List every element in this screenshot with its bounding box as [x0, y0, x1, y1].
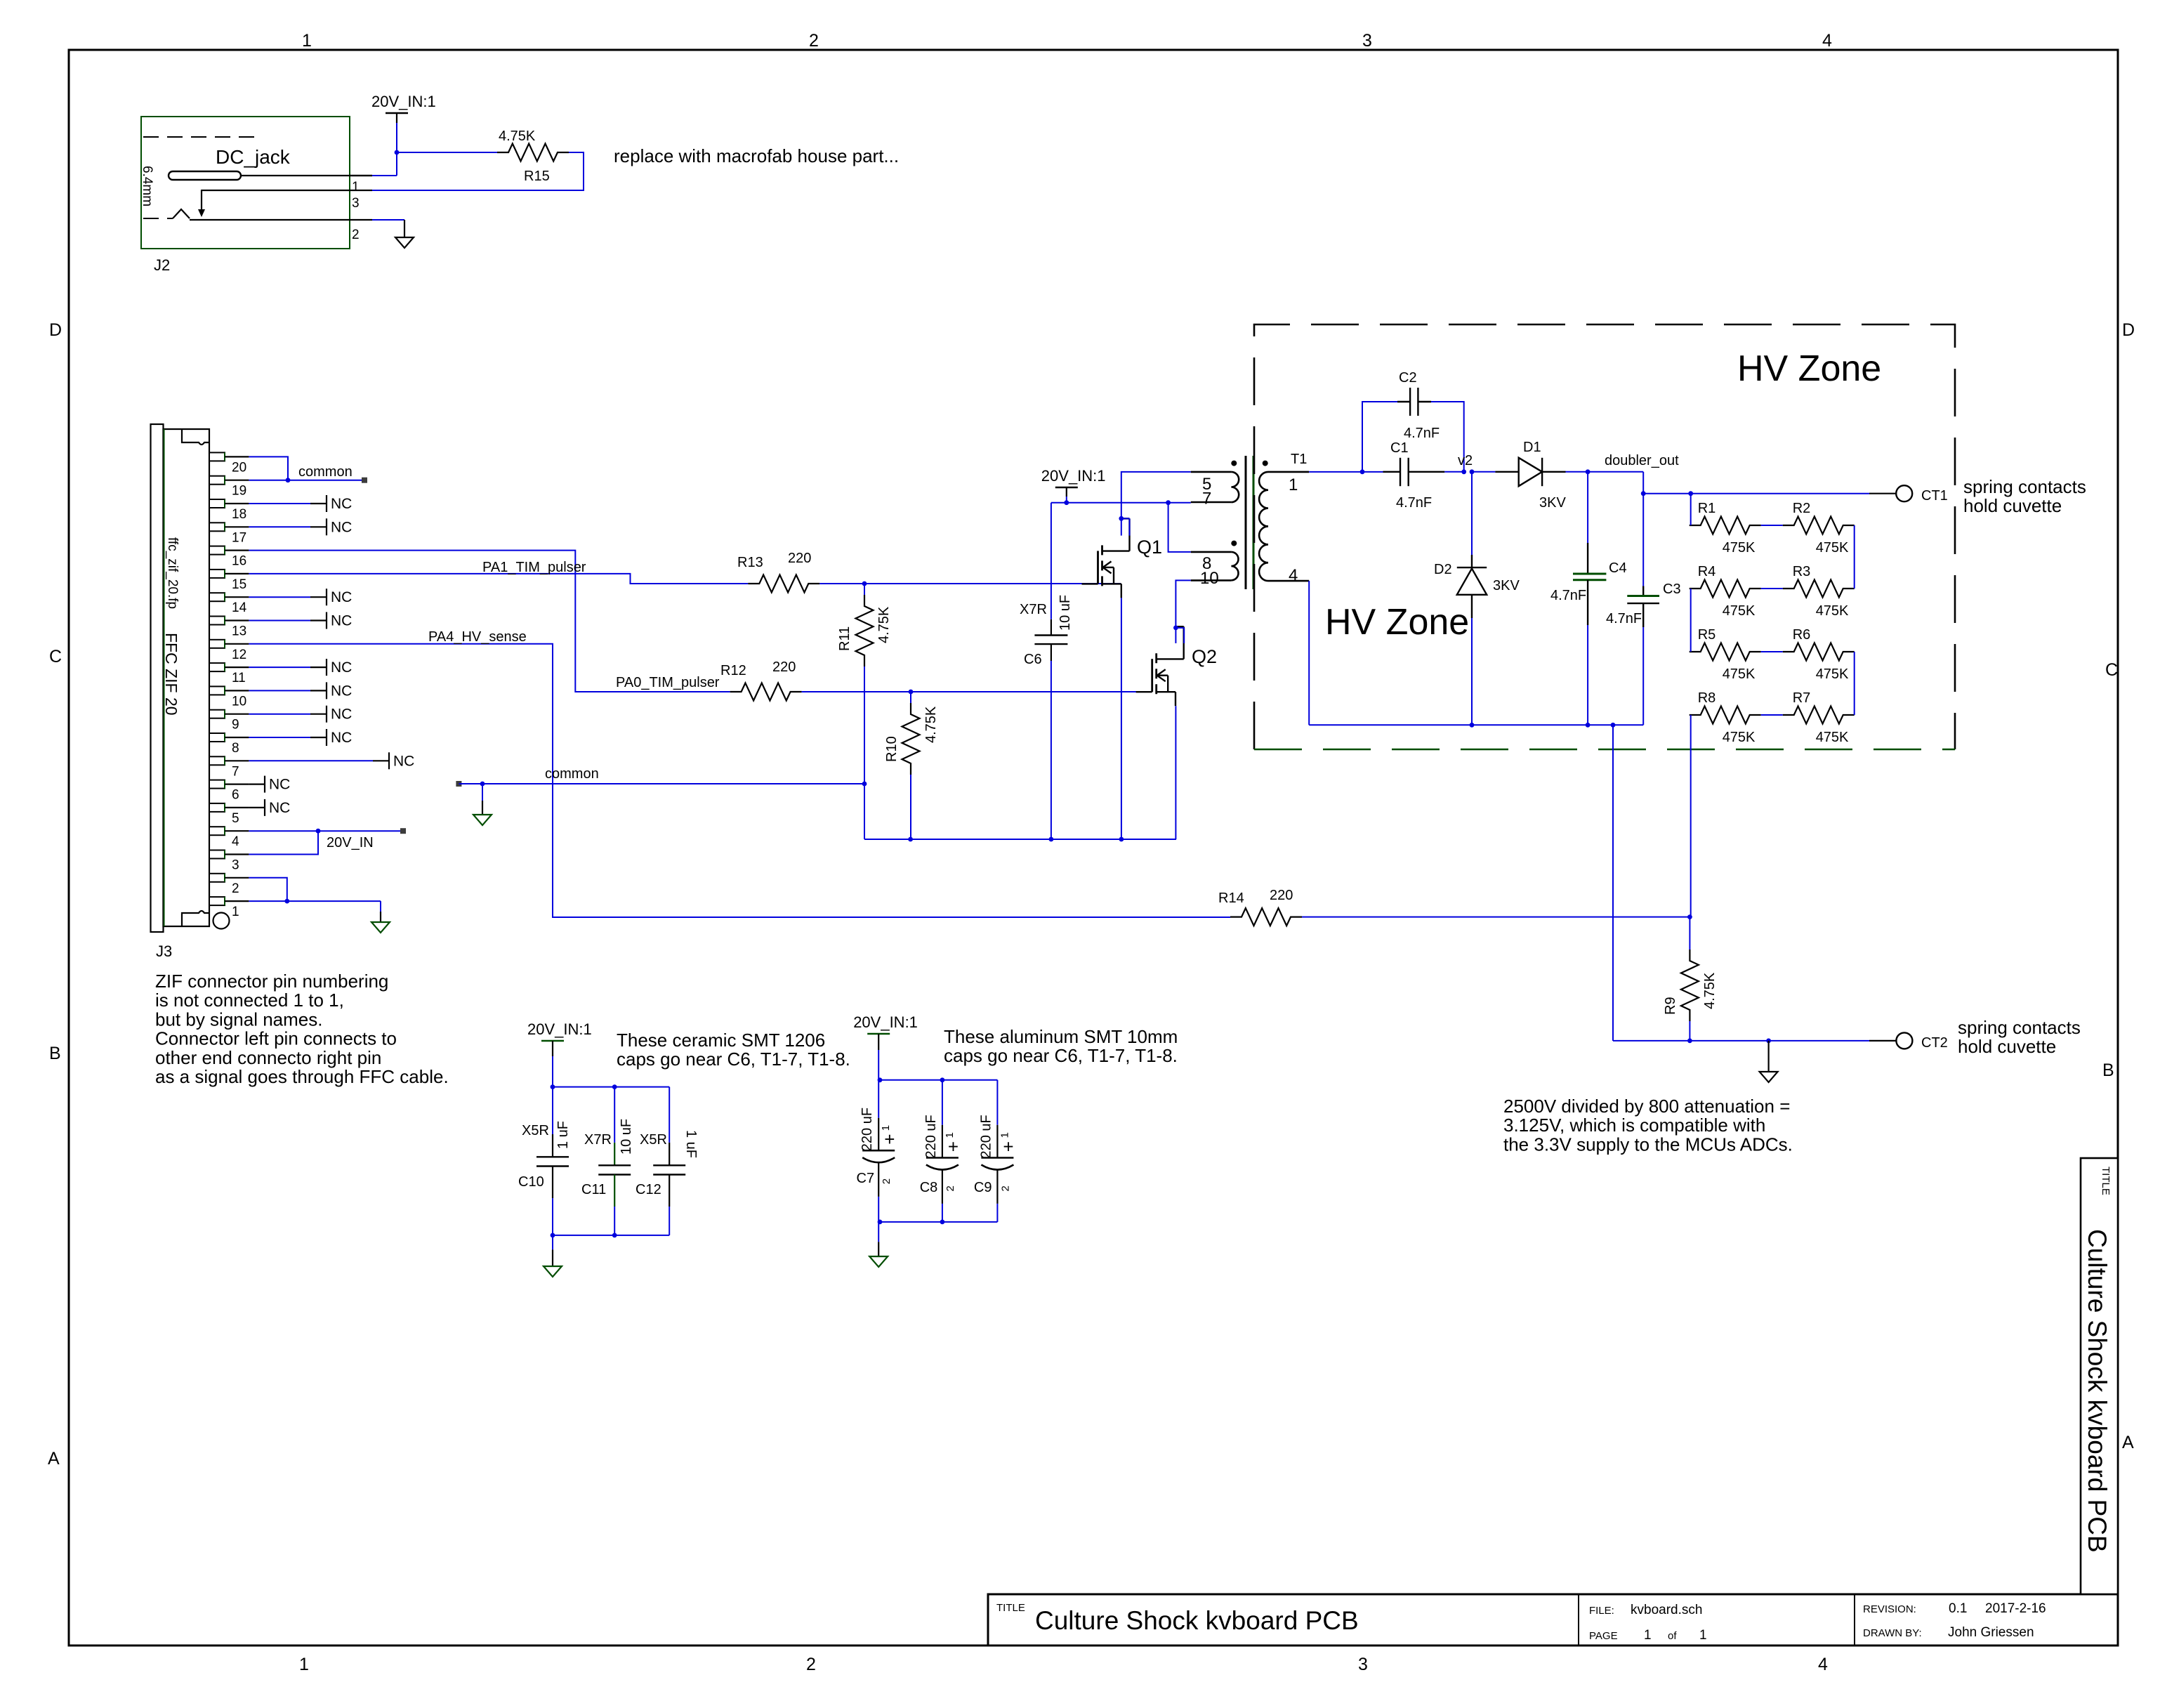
side title name — [2083, 1229, 2112, 1553]
svg-text:17: 17 — [232, 530, 246, 545]
svg-text:1: 1 — [232, 905, 239, 919]
power 20V_IN:1 at C6 — [1041, 467, 1106, 497]
svg-text:4.7nF: 4.7nF — [1550, 588, 1586, 603]
svg-text:C12: C12 — [636, 1182, 661, 1197]
svg-text:HV Zone: HV Zone — [1325, 602, 1469, 643]
svg-text:TITLE: TITLE — [2100, 1167, 2112, 1195]
wire T1 pin8 branch — [1168, 503, 1191, 552]
transistor Q1 — [1082, 518, 1163, 598]
wire Q2 source to rail — [1175, 706, 1176, 839]
note spring contacts CT2 — [1958, 1017, 2081, 1057]
svg-text:+: + — [948, 1136, 959, 1157]
svg-text:2: 2 — [232, 881, 239, 896]
net label PA4_HV_sense — [428, 629, 527, 645]
title block REVISION — [1863, 1601, 2046, 1616]
wire R13 to Q1 gate — [819, 582, 1121, 586]
svg-text:NC: NC — [269, 800, 290, 816]
svg-text:20V_IN: 20V_IN — [327, 835, 374, 850]
svg-text:475K: 475K — [1723, 730, 1756, 745]
svg-text:doubler_out: doubler_out — [1605, 453, 1679, 468]
svg-text:4.75K: 4.75K — [499, 129, 536, 144]
svg-text:X7R: X7R — [584, 1132, 612, 1148]
net label doubler_out — [1605, 453, 1679, 468]
diode D1 — [1472, 440, 1566, 511]
ground at common — [473, 815, 492, 825]
svg-text:R1: R1 — [1698, 501, 1716, 516]
svg-text:R3: R3 — [1793, 564, 1811, 579]
svg-text:the 3.3V supply to the MCUs AD: the 3.3V supply to the MCUs ADCs. — [1503, 1134, 1793, 1155]
J2 barrel pin — [169, 171, 372, 180]
power 20V_IN:1 at J2 — [371, 93, 436, 123]
svg-text:4: 4 — [232, 834, 239, 849]
wire J3 pin20 to common — [249, 456, 288, 480]
svg-text:but by signal names.: but by signal names. — [155, 1009, 322, 1030]
svg-text:475K: 475K — [1723, 540, 1756, 556]
svg-text:NC: NC — [331, 519, 352, 535]
svg-text:kvboard.sch: kvboard.sch — [1631, 1603, 1702, 1617]
resistor R9 — [1663, 917, 1718, 1021]
wire C3 to rail — [1642, 627, 1644, 725]
svg-text:9: 9 — [232, 718, 239, 733]
capacitor C12 — [636, 1087, 699, 1235]
svg-text:C7: C7 — [857, 1171, 875, 1186]
svg-text:20V_IN:1: 20V_IN:1 — [1041, 467, 1106, 485]
title block name — [1035, 1606, 1359, 1635]
NC at J3 pin 7 — [249, 752, 414, 769]
NC at J3 pin 18 — [249, 495, 352, 512]
svg-text:475K: 475K — [1816, 666, 1849, 682]
svg-text:PA0_TIM_pulser: PA0_TIM_pulser — [616, 675, 720, 690]
svg-text:CT2: CT2 — [1921, 1035, 1948, 1051]
ground at CT2 — [1760, 1072, 1778, 1082]
svg-text:19: 19 — [232, 484, 246, 499]
wire C7 bank top rail — [878, 1050, 998, 1082]
HV Zone title left — [1325, 602, 1469, 643]
svg-text:v2: v2 — [1458, 453, 1473, 468]
svg-text:R4: R4 — [1698, 564, 1716, 579]
ground at J3 pin1 — [371, 922, 390, 933]
wire CT2 rail — [1613, 1039, 1896, 1044]
side title box — [2081, 1158, 2118, 1594]
svg-text:Q2: Q2 — [1192, 646, 1217, 667]
HV Zone dashed box — [1254, 324, 1955, 749]
wire common rail vertical — [864, 784, 865, 839]
svg-text:R14: R14 — [1218, 891, 1244, 906]
wire T1 pin10 to Q2 drain — [1173, 580, 1191, 643]
svg-text:+: + — [1003, 1136, 1013, 1157]
wire 20V down to C6 — [1051, 503, 1052, 619]
resistor R10 — [884, 703, 939, 775]
svg-text:Q1: Q1 — [1137, 537, 1162, 558]
J2 label DC_jack — [216, 146, 291, 168]
svg-text:4.7nF: 4.7nF — [1606, 611, 1642, 626]
title block PAGE — [1589, 1628, 1707, 1643]
svg-text:C: C — [49, 647, 62, 666]
svg-text:NC: NC — [331, 589, 352, 605]
J2 label 6.4mm — [140, 166, 154, 206]
wire C10 bank top rail — [551, 1056, 670, 1089]
svg-text:NC: NC — [331, 659, 352, 676]
wire C6 to rail — [1051, 661, 1052, 839]
wire bottom rail — [864, 837, 1176, 842]
NC at J3 pin 14 — [249, 589, 352, 605]
J3 label FFC ZIF 20 — [162, 633, 180, 716]
svg-text:475K: 475K — [1816, 540, 1849, 556]
svg-text:3: 3 — [352, 196, 360, 211]
svg-text:REVISION:: REVISION: — [1863, 1603, 1916, 1615]
wire D2 to rail — [1470, 618, 1475, 728]
svg-text:NC: NC — [331, 730, 352, 746]
svg-text:4: 4 — [1818, 1655, 1828, 1674]
resistor pair R5 R6 — [1690, 627, 1855, 682]
svg-text:C: C — [2105, 660, 2118, 680]
wire C7 bank to ground — [878, 1222, 879, 1256]
svg-text:PA4_HV_sense: PA4_HV_sense — [428, 629, 527, 645]
J3 refdes — [156, 942, 172, 960]
NC at J3 pin 9 — [249, 706, 352, 723]
svg-text:1: 1 — [352, 180, 360, 195]
HV Zone title right — [1737, 348, 1881, 389]
svg-text:X5R: X5R — [522, 1123, 549, 1138]
wire J3 pin16 to PA0_TIM_pulser — [249, 551, 730, 692]
svg-text:4.7nF: 4.7nF — [1404, 426, 1440, 441]
capacitor C2 loop — [1362, 370, 1464, 472]
svg-text:20: 20 — [232, 460, 246, 475]
svg-text:220: 220 — [788, 551, 811, 566]
svg-text:1: 1 — [1289, 475, 1298, 494]
svg-text:R8: R8 — [1698, 690, 1716, 706]
svg-text:4: 4 — [1822, 31, 1832, 51]
wire C7 bank bottom rail — [878, 1220, 998, 1225]
wire CT1 to R1 — [1690, 494, 1692, 525]
svg-text:3.125V, which is compatible wi: 3.125V, which is compatible with — [1503, 1115, 1765, 1136]
svg-text:These ceramic SMT 1206: These ceramic SMT 1206 — [617, 1030, 825, 1051]
svg-text:J3: J3 — [156, 942, 172, 960]
transformer T1 — [1191, 452, 1309, 589]
svg-text:X5R: X5R — [640, 1132, 667, 1148]
svg-text:4.75K: 4.75K — [876, 606, 892, 643]
svg-text:common: common — [545, 766, 599, 782]
svg-text:1 uF: 1 uF — [555, 1121, 571, 1149]
svg-text:R2: R2 — [1793, 501, 1811, 516]
svg-text:of: of — [1668, 1630, 1677, 1642]
svg-text:4: 4 — [1289, 566, 1298, 585]
wire 20V to J2 pin1 — [372, 152, 397, 176]
svg-text:475K: 475K — [1723, 603, 1756, 619]
svg-text:PAGE: PAGE — [1589, 1630, 1618, 1642]
title block TITLE — [996, 1602, 1025, 1614]
svg-text:0.1: 0.1 — [1949, 1601, 1967, 1616]
svg-text:PA1_TIM_pulser: PA1_TIM_pulser — [482, 560, 586, 575]
net label PA1_TIM_pulser — [482, 560, 586, 575]
svg-text:1: 1 — [302, 31, 312, 51]
wire J3 pin3 to 20V_IN — [249, 831, 318, 854]
capacitor C7 — [857, 1080, 895, 1222]
svg-text:220 uF: 220 uF — [923, 1115, 939, 1158]
svg-text:NC: NC — [331, 683, 352, 699]
svg-text:C9: C9 — [974, 1180, 992, 1195]
wire 20V to R15 — [395, 123, 497, 155]
wire C10 bank to ground — [552, 1235, 553, 1266]
svg-text:caps go near C6, T1-7, T1-8.: caps go near C6, T1-7, T1-8. — [617, 1049, 850, 1070]
note ZIF connector pin numbering — [155, 971, 449, 1087]
capacitor C6 — [1020, 595, 1073, 667]
svg-text:John Griessen: John Griessen — [1948, 1625, 2034, 1640]
NC at J3 pin 8 — [249, 729, 352, 746]
net label common (mid) — [456, 766, 598, 787]
svg-text:16: 16 — [232, 554, 246, 569]
svg-text:C4: C4 — [1609, 560, 1627, 576]
capacitor C8 — [920, 1080, 959, 1222]
svg-text:R13: R13 — [737, 555, 763, 570]
svg-text:475K: 475K — [1816, 603, 1849, 619]
svg-text:HV Zone: HV Zone — [1737, 348, 1881, 389]
svg-text:18: 18 — [232, 507, 246, 522]
J2 pin 3 — [202, 190, 372, 211]
wire J3 pin1 to ground — [249, 899, 381, 922]
svg-text:13: 13 — [232, 624, 246, 639]
svg-text:R5: R5 — [1698, 627, 1716, 643]
svg-text:1: 1 — [944, 1132, 956, 1138]
svg-text:Culture Shock kvboard PCB: Culture Shock kvboard PCB — [1035, 1606, 1359, 1635]
svg-text:T1: T1 — [1291, 452, 1307, 467]
row labels right — [2102, 320, 2135, 1452]
svg-text:15: 15 — [232, 577, 246, 592]
wire J3 pin12 PA4_HV_sense — [249, 644, 1230, 917]
svg-text:C1: C1 — [1390, 440, 1409, 456]
resistor R12 — [720, 659, 802, 701]
wire CT2 ground stem — [1768, 1041, 1770, 1072]
svg-text:B: B — [49, 1044, 61, 1063]
svg-text:1: 1 — [299, 1655, 309, 1674]
wire R15 out loop to pin3 — [372, 152, 584, 190]
svg-text:C6: C6 — [1024, 652, 1042, 667]
capacitor C9 — [974, 1080, 1014, 1222]
wire T1 pin1 to C1 — [1309, 469, 1383, 474]
capacitor C10 — [518, 1087, 571, 1235]
svg-text:6.4mm: 6.4mm — [140, 166, 154, 206]
column labels bottom — [299, 1655, 1828, 1674]
wire J2 pin2 to ground — [372, 220, 404, 237]
capacitor C4 — [1550, 472, 1627, 625]
svg-text:R6: R6 — [1793, 627, 1811, 643]
svg-text:10: 10 — [232, 694, 246, 709]
svg-text:D1: D1 — [1523, 440, 1541, 455]
wire C10 bank bottom rail — [551, 1233, 670, 1238]
ground at J2 pin2 — [395, 237, 414, 248]
svg-text:is not connected 1 to 1,: is not connected 1 to 1, — [155, 990, 344, 1011]
svg-text:NC: NC — [331, 496, 352, 512]
wire T1 pin5 to Q1 drain — [1119, 472, 1190, 536]
wire J3 pin2 — [249, 878, 287, 901]
svg-text:1: 1 — [880, 1125, 892, 1131]
J2 switch lever — [173, 190, 372, 220]
J3 label ffc_zif_20.fp — [165, 537, 180, 609]
svg-text:NC: NC — [331, 613, 352, 629]
connector J3 FFC ZIF 20 body — [151, 424, 230, 932]
terminal CT2 — [1896, 1032, 1947, 1051]
svg-text:ffc_zif_20.fp: ffc_zif_20.fp — [165, 537, 180, 609]
side title TITLE — [2100, 1167, 2112, 1195]
svg-text:475K: 475K — [1723, 666, 1756, 682]
svg-text:R15: R15 — [524, 169, 550, 184]
svg-text:R10: R10 — [884, 736, 900, 762]
resistor R14 — [1218, 888, 1302, 926]
transistor Q2 — [1136, 626, 1217, 706]
net label 20V_IN — [327, 835, 374, 850]
svg-text:A: A — [2122, 1433, 2134, 1452]
node v2 — [1458, 453, 1474, 474]
svg-text:common: common — [298, 464, 353, 480]
svg-text:TITLE: TITLE — [996, 1602, 1025, 1614]
J3 pins 1-20 with numbers — [209, 452, 249, 919]
svg-text:FFC ZIF 20: FFC ZIF 20 — [162, 633, 180, 716]
wire doubler_out down — [1641, 472, 1646, 496]
svg-text:8: 8 — [232, 741, 239, 756]
svg-text:+: + — [884, 1129, 895, 1150]
capacitor C3 — [1606, 494, 1681, 627]
NC at J3 pin 17 — [249, 518, 352, 535]
svg-text:5: 5 — [232, 811, 239, 826]
power 20V_IN:1 at C7 — [853, 1013, 918, 1050]
svg-text:10 uF: 10 uF — [619, 1119, 634, 1155]
svg-text:10: 10 — [1200, 569, 1219, 588]
net label common (J3) — [298, 464, 367, 483]
svg-text:3: 3 — [1358, 1655, 1368, 1674]
note ceramic caps — [617, 1030, 850, 1070]
svg-text:spring contacts: spring contacts — [1963, 476, 2086, 497]
connector J2 DC jack body — [141, 117, 350, 274]
title block box — [988, 1594, 2118, 1645]
svg-text:spring contacts: spring contacts — [1958, 1017, 2081, 1038]
wire R4 to R5 left — [1690, 589, 1692, 652]
svg-text:NC: NC — [269, 777, 290, 793]
power 20V_IN:1 at C10 — [527, 1020, 592, 1056]
svg-text:D: D — [2122, 320, 2135, 340]
title block DRAWN BY — [1863, 1625, 2034, 1640]
row labels left — [48, 320, 62, 1469]
wire R6 to R7 right — [1854, 652, 1855, 715]
svg-text:11: 11 — [232, 671, 246, 685]
svg-text:A: A — [48, 1449, 60, 1469]
svg-text:R12: R12 — [720, 663, 746, 678]
svg-text:DRAWN BY:: DRAWN BY: — [1863, 1627, 1922, 1639]
wire Q1 source to rail — [1121, 598, 1122, 839]
wire R12 to Q2 gate — [802, 690, 1137, 695]
svg-text:caps go near C6, T1-7, T1-8.: caps go near C6, T1-7, T1-8. — [944, 1045, 1178, 1066]
svg-text:3KV: 3KV — [1539, 495, 1566, 511]
svg-text:2: 2 — [352, 228, 360, 242]
J2 pin 2 — [352, 228, 360, 242]
svg-text:CT1: CT1 — [1921, 488, 1948, 504]
svg-text:C11: C11 — [581, 1182, 606, 1197]
resistor pair R8 R7 — [1690, 690, 1855, 745]
terminal CT1 — [1896, 485, 1948, 504]
svg-text:6: 6 — [232, 788, 239, 803]
svg-text:B: B — [2102, 1060, 2114, 1080]
wire R11 to common — [864, 584, 865, 784]
svg-text:4.7nF: 4.7nF — [1396, 495, 1432, 511]
svg-text:replace with macrofab house pa: replace with macrofab house part... — [614, 145, 899, 166]
wire 20V to T1 pin7 — [1051, 497, 1191, 505]
svg-text:2: 2 — [806, 1655, 816, 1674]
ground at C10 bank — [544, 1266, 562, 1277]
svg-text:1 uF: 1 uF — [683, 1130, 699, 1158]
svg-text:1: 1 — [999, 1132, 1010, 1138]
svg-text:2: 2 — [881, 1178, 893, 1184]
svg-text:hold cuvette: hold cuvette — [1963, 495, 2062, 516]
svg-text:220: 220 — [1270, 888, 1293, 903]
svg-text:2: 2 — [944, 1185, 956, 1191]
wire CT1 line — [1643, 491, 1896, 496]
svg-text:220 uF: 220 uF — [860, 1108, 875, 1151]
wire D1 to doubler_out — [1566, 469, 1644, 474]
NC at J3 pin 6 — [249, 776, 290, 793]
svg-text:2017-2-16: 2017-2-16 — [1985, 1601, 2046, 1616]
resistor pair R1 R2 — [1690, 501, 1855, 556]
svg-text:ZIF connector pin numbering: ZIF connector pin numbering — [155, 971, 388, 992]
svg-text:20V_IN:1: 20V_IN:1 — [853, 1013, 918, 1031]
svg-text:as a signal goes through FFC c: as a signal goes through FFC cable. — [155, 1066, 449, 1087]
svg-text:C3: C3 — [1663, 582, 1681, 597]
J2 pin 1 — [350, 176, 372, 195]
svg-text:NC: NC — [331, 707, 352, 723]
svg-text:220: 220 — [772, 659, 796, 675]
NC at J3 pin 5 — [249, 799, 290, 816]
ground at C7 bank — [869, 1256, 888, 1267]
svg-text:1: 1 — [1644, 1628, 1652, 1643]
wire common ground stem — [482, 784, 483, 815]
svg-text:C8: C8 — [920, 1180, 938, 1195]
svg-text:R7: R7 — [1793, 690, 1811, 706]
svg-text:3KV: 3KV — [1493, 578, 1520, 593]
svg-text:DC_jack: DC_jack — [216, 146, 291, 168]
NC at J3 pin 13 — [249, 612, 352, 629]
wire common — [459, 782, 867, 787]
svg-text:hold cuvette: hold cuvette — [1958, 1036, 2056, 1057]
svg-text:4.75K: 4.75K — [923, 706, 939, 743]
title block FILE — [1589, 1603, 1702, 1617]
svg-text:220 uF: 220 uF — [978, 1115, 994, 1158]
svg-text:14: 14 — [232, 600, 247, 615]
svg-text:1: 1 — [1699, 1628, 1707, 1643]
svg-text:D: D — [49, 320, 62, 340]
svg-text:2500V divided by 800 attenuati: 2500V divided by 800 attenuation = — [1503, 1096, 1790, 1117]
wire R2 to R3 right — [1854, 525, 1855, 589]
resistor R11 — [837, 595, 892, 666]
svg-text:7: 7 — [232, 764, 239, 779]
svg-text:R11: R11 — [837, 626, 852, 651]
svg-text:7: 7 — [1202, 490, 1211, 508]
svg-text:20V_IN:1: 20V_IN:1 — [527, 1020, 592, 1038]
note replace with macrofab — [614, 145, 899, 166]
svg-text:Culture Shock kvboard PCB: Culture Shock kvboard PCB — [2083, 1229, 2112, 1553]
svg-text:12: 12 — [232, 648, 246, 662]
svg-text:4.75K: 4.75K — [1702, 972, 1718, 1009]
capacitor C1 — [1383, 440, 1464, 511]
NC at J3 pin 11 — [249, 659, 352, 676]
svg-text:3: 3 — [232, 858, 239, 873]
resistor R15 — [497, 129, 569, 184]
svg-text:Connector left pin connects to: Connector left pin connects to — [155, 1028, 397, 1049]
svg-text:other end connecto right pin: other end connecto right pin — [155, 1047, 381, 1068]
wire J3 pin19 to common — [249, 478, 364, 482]
wire J3 pin4 20V_IN — [249, 828, 406, 834]
svg-text:NC: NC — [393, 753, 414, 769]
note 2500V attenuation — [1503, 1096, 1793, 1155]
wire HV rail down to CT2 — [1612, 725, 1614, 1041]
svg-text:3: 3 — [1362, 31, 1372, 51]
